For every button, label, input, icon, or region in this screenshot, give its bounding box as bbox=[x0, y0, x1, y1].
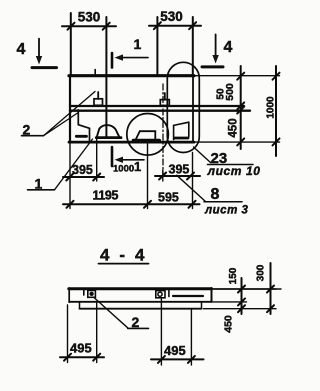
tick at 147.5 bbox=[144, 201, 151, 208]
section rib right edge bbox=[201, 302, 203, 309]
svg-text:лист 10: лист 10 bbox=[207, 164, 261, 178]
lifting loop B base bar bbox=[96, 136, 121, 139]
section right dims: extension bottom bbox=[204, 308, 277, 310]
loop pocket D slant top bbox=[174, 122, 189, 125]
loop pocket D anchor bar bbox=[175, 137, 188, 140]
section mark 1 bottom: bar bbox=[111, 147, 114, 166]
right dim inner tick top bbox=[237, 73, 244, 80]
section rib left edge bbox=[79, 302, 81, 309]
recess A anchor bar bbox=[76, 135, 86, 138]
section right pin tick bbox=[168, 290, 170, 297]
495 left tick 1 bbox=[64, 354, 71, 361]
svg-text:1000: 1000 bbox=[266, 96, 277, 119]
section right square bbox=[156, 291, 165, 298]
section left pin tick bbox=[83, 290, 85, 295]
svg-text:150: 150 bbox=[228, 267, 239, 284]
section slab top edge bbox=[69, 287, 212, 290]
dimension 530 right: line bbox=[149, 25, 201, 27]
bottom dim 395 left: line bbox=[63, 176, 104, 178]
embedded detail 1 pin bbox=[97, 92, 99, 99]
svg-text:лист 3: лист 3 bbox=[204, 205, 248, 217]
section mark 1 bottom: arrow bbox=[120, 159, 144, 161]
section slab top edge extension bbox=[212, 288, 282, 290]
svg-text:595: 595 bbox=[158, 191, 179, 205]
extension: axis tick overshoot bbox=[162, 170, 164, 181]
dimension 530 right: tick right bbox=[189, 22, 196, 29]
395 right tick 2 bbox=[187, 173, 194, 180]
section mark 4 left: bar bbox=[32, 66, 57, 69]
panel top edge extension to right dims bbox=[194, 75, 280, 77]
dimension 530 left: tick left bbox=[68, 23, 75, 30]
recess A right vertical bbox=[89, 128, 91, 140]
section mark 4 left: arrow bbox=[38, 39, 40, 59]
callout 23: underline bbox=[208, 164, 254, 166]
section embedded plate line right bbox=[173, 295, 203, 297]
section mark 1 top: arrow bbox=[120, 57, 148, 59]
svg-text:500: 500 bbox=[224, 83, 236, 101]
panel inner line A bbox=[70, 105, 244, 107]
395 right tick 1 bbox=[159, 173, 166, 180]
right dim inner tick bottom bbox=[237, 138, 244, 145]
bottom dim 395 right: line bbox=[155, 175, 200, 177]
495 right tick 1 bbox=[158, 356, 165, 363]
svg-text:4 - 4: 4 - 4 bbox=[100, 246, 147, 265]
section flange bottom bbox=[69, 301, 211, 303]
svg-text:4: 4 bbox=[224, 39, 233, 56]
loop pocket C base bar bbox=[133, 139, 159, 142]
section right dim inner line bbox=[241, 278, 243, 314]
callout circle 23 bbox=[127, 114, 169, 156]
svg-text:495: 495 bbox=[70, 341, 92, 356]
recess A slant bbox=[78, 125, 89, 129]
recess A vertical bbox=[77, 110, 79, 125]
label 2: leader a bbox=[44, 92, 96, 136]
dimension 530 right: extension left bbox=[156, 17, 158, 76]
section dim 495 right: line bbox=[151, 358, 204, 360]
panel outline: left edge bbox=[69, 76, 71, 143]
svg-text:395: 395 bbox=[169, 163, 190, 177]
section dim 495 left: extensions bbox=[67, 305, 69, 363]
label 2: underline bbox=[22, 135, 44, 137]
label 1: leader bbox=[55, 139, 93, 190]
svg-text:395: 395 bbox=[72, 163, 93, 177]
panel outline: top edge thick bbox=[69, 74, 194, 77]
svg-text:530: 530 bbox=[78, 10, 101, 25]
section slab right edge bbox=[211, 288, 213, 302]
dimension 530 left: tick right bbox=[103, 23, 110, 30]
svg-text:450: 450 bbox=[223, 315, 235, 333]
embedded detail 2 pin bbox=[164, 93, 166, 100]
svg-text:1195: 1195 bbox=[93, 189, 119, 203]
right dim outer line bbox=[275, 66, 277, 156]
right dim inner tick mid2 bbox=[237, 107, 244, 114]
section right dims: extension top bbox=[214, 288, 277, 290]
extension: pocket C center down bbox=[147, 142, 149, 209]
section rib bottom bbox=[80, 308, 202, 310]
svg-text:1: 1 bbox=[134, 36, 142, 52]
loop pocket D right vertical bbox=[188, 122, 190, 136]
section dim 495 right: extensions bbox=[160, 299, 162, 365]
right dim outer tick bottom bbox=[273, 138, 280, 145]
svg-text:8: 8 bbox=[211, 186, 220, 203]
embedded detail square 1 bbox=[94, 99, 103, 106]
svg-text:300: 300 bbox=[256, 264, 267, 281]
section label 2 leader bbox=[95, 298, 128, 328]
right dim inner tick mid1 bbox=[237, 102, 244, 109]
panel bottom edge thick bbox=[69, 141, 194, 144]
section mark 1 top: bar bbox=[111, 53, 114, 68]
callout leader 23 bbox=[194, 147, 211, 163]
dimension 530 left: extension line right (down to loop B) bbox=[105, 17, 107, 138]
495 right tick 2 bbox=[188, 356, 195, 363]
svg-text:530: 530 bbox=[160, 9, 183, 24]
bottom dim line 1195/595 bbox=[63, 203, 200, 205]
extension: loop B left base down bbox=[96, 138, 98, 182]
section left square bbox=[88, 290, 96, 297]
section left square dot bbox=[90, 292, 93, 295]
panel inner line B bbox=[70, 110, 250, 112]
section right square circle bbox=[158, 292, 162, 296]
panel right edge bbox=[192, 76, 194, 142]
stadium callout 8 bbox=[167, 62, 199, 152]
ticks outer bbox=[267, 286, 274, 293]
dimension 530 right: extension right bbox=[192, 17, 194, 76]
section right dims: extension mid bbox=[212, 301, 247, 303]
svg-text:495: 495 bbox=[164, 343, 186, 358]
dimension 530 right: tick left bbox=[154, 22, 161, 29]
loop pocket D left vertical bbox=[173, 125, 175, 139]
svg-text:4: 4 bbox=[17, 41, 26, 58]
395 left tick 1 bbox=[66, 174, 73, 181]
tick at 192 bbox=[189, 201, 196, 208]
axis dash-dot line bbox=[162, 84, 164, 176]
lifting loop B dome bbox=[97, 125, 119, 137]
395 left tick 2 bbox=[93, 174, 100, 181]
dimension 530 left: extension line left (top of panel left edge) bbox=[70, 13, 72, 76]
panel bottom edge extension to right dims bbox=[194, 141, 280, 143]
tick at 70 bbox=[67, 201, 74, 208]
section right dim outer line bbox=[270, 263, 272, 314]
section label 2 underline bbox=[128, 327, 149, 329]
label 2: leader b bbox=[44, 113, 79, 136]
section title underline bbox=[99, 263, 149, 265]
loop pocket C top bbox=[136, 131, 156, 139]
svg-text:450: 450 bbox=[228, 118, 240, 137]
label 1: underline bbox=[28, 189, 55, 191]
ticks inner bbox=[238, 286, 245, 293]
right dim inner line bbox=[240, 66, 242, 149]
embedded detail square 2 bbox=[160, 100, 169, 106]
extension: panel left edge down bbox=[69, 143, 71, 209]
495 left tick 2 bbox=[93, 354, 100, 361]
dimension 530 left: line bbox=[62, 25, 116, 27]
section mark 4 right: arrow bbox=[215, 34, 217, 58]
svg-text:1: 1 bbox=[134, 159, 141, 174]
section dim 495 left: line bbox=[60, 356, 104, 358]
callout leader 8 bbox=[177, 175, 206, 201]
pin nub above top edge bbox=[94, 70, 96, 74]
callout 8: underline bbox=[204, 201, 242, 203]
right dim outer tick top bbox=[273, 73, 280, 80]
section mark 4 right: bar bbox=[202, 65, 223, 68]
svg-text:1000: 1000 bbox=[113, 164, 134, 175]
extension: panel right edge down bbox=[192, 153, 194, 209]
section slab left edge bbox=[68, 288, 70, 302]
